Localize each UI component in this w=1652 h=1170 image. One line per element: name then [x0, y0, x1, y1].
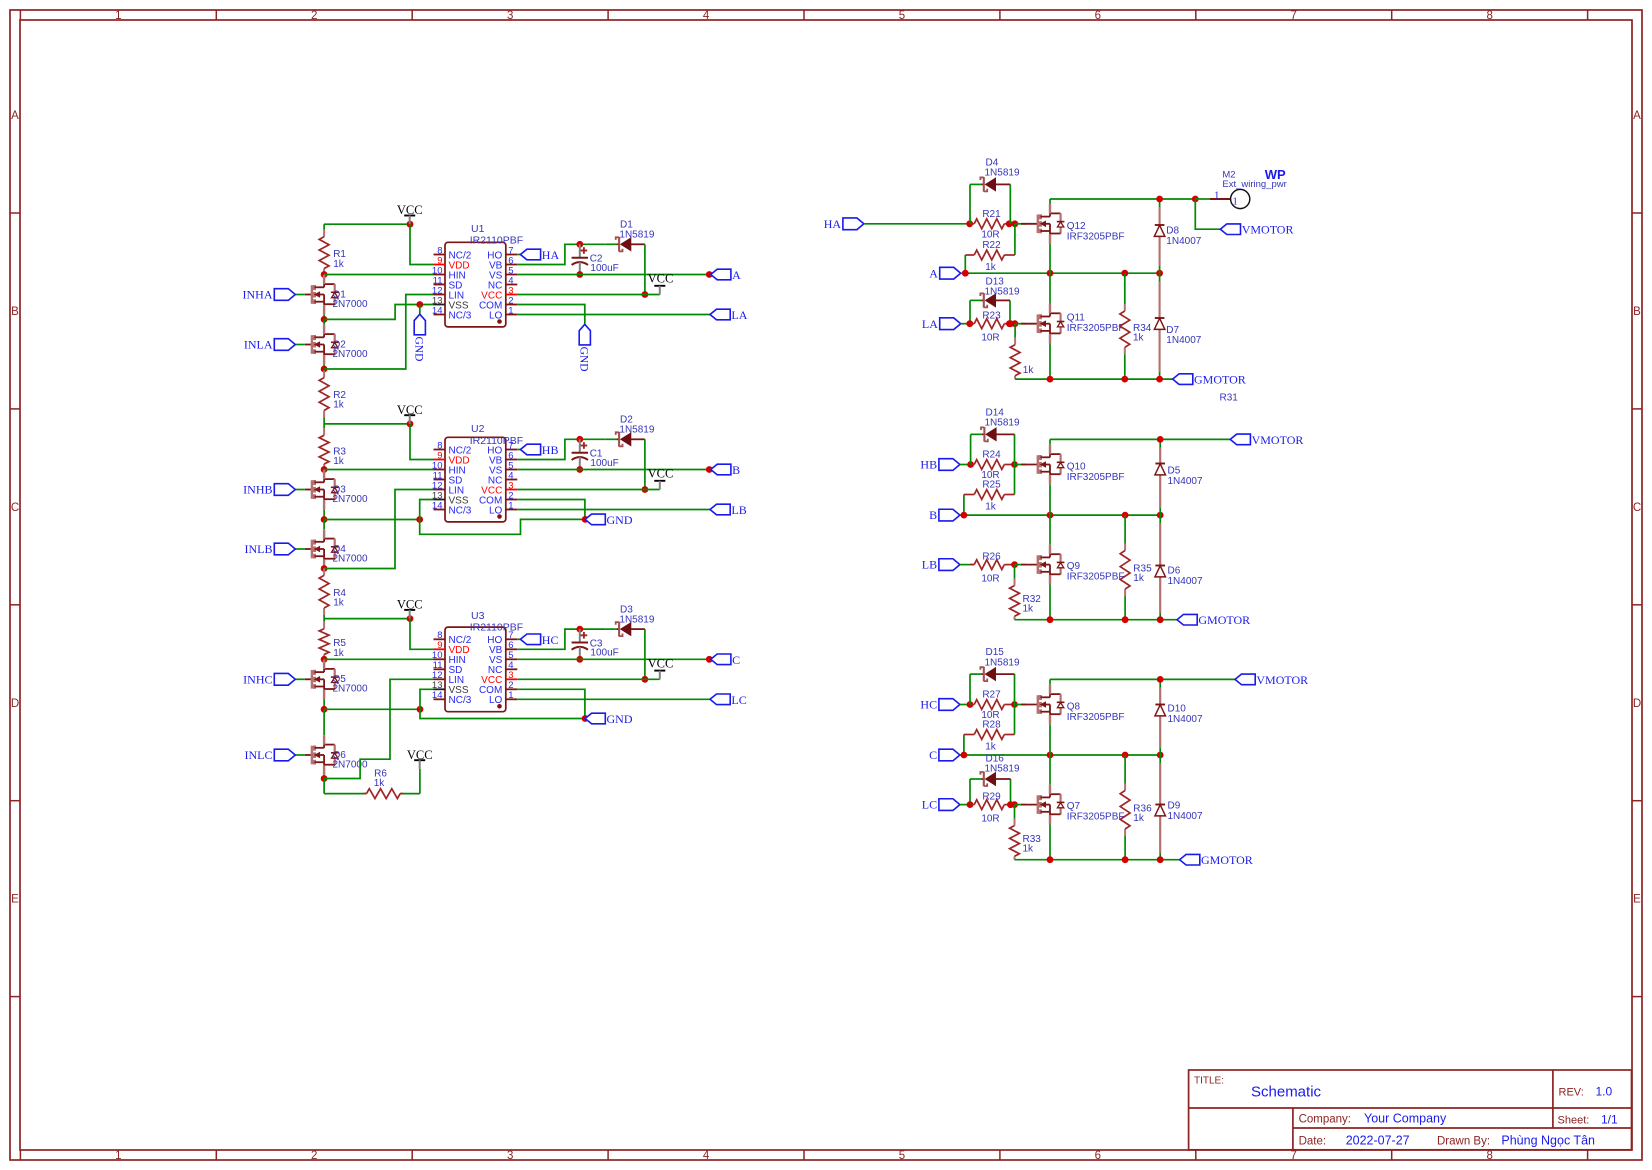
svg-text:10R: 10R — [981, 574, 999, 585]
svg-text:1: 1 — [508, 305, 513, 316]
wire LO to port LC — [517, 698, 710, 700]
svg-text:10R: 10R — [981, 229, 999, 240]
svg-text:GND: GND — [413, 337, 425, 362]
transistor Q10 IRF3205PBF (high side) — [1021, 464, 1038, 466]
resistor R4 1k — [323, 569, 325, 576]
port INHA — [295, 294, 305, 296]
diode D8 1N4007 — [1159, 199, 1161, 273]
U3 right pin 1 (LO) — [506, 698, 518, 700]
wire diode to VCC net — [644, 244, 646, 294]
ground port GND (U2) — [585, 514, 605, 525]
wire VMOTOR rail — [1050, 678, 1235, 680]
junction gmotor/MOSFET — [1047, 616, 1054, 623]
junction phase/R pulldown — [1121, 270, 1128, 277]
port A — [711, 269, 731, 280]
wire HB to gate resistor — [960, 464, 971, 466]
svg-text:1k: 1k — [1133, 573, 1145, 584]
svg-text:1k: 1k — [985, 742, 997, 753]
svg-text:Date:: Date: — [1299, 1136, 1327, 1148]
wire gate to Q9 — [1015, 564, 1026, 566]
junction gate node (low) — [1006, 320, 1013, 327]
U1 right pin 3 (VCC) — [506, 294, 518, 296]
svg-text:TITLE:: TITLE: — [1194, 1076, 1224, 1087]
svg-text:14: 14 — [432, 305, 443, 316]
junction at port C — [706, 656, 713, 663]
port INLB — [295, 548, 305, 550]
resistor R26 10R (gate, low side) — [960, 564, 974, 566]
port INLC — [295, 754, 305, 756]
U1 left pin 10 (HIN) — [434, 274, 446, 276]
junction VCC net — [642, 676, 649, 683]
U1 left pin 13 (VSS) — [434, 304, 446, 306]
junction phase/diode column — [1156, 270, 1163, 277]
svg-text:R24: R24 — [982, 450, 1001, 461]
port B — [711, 464, 731, 475]
wire phase row — [960, 514, 1160, 516]
svg-text:2: 2 — [311, 10, 317, 22]
wire drain Q7 from phase — [1049, 755, 1051, 785]
svg-text:1N5819: 1N5819 — [619, 615, 654, 626]
U1 right pin 4 (NC) — [506, 284, 518, 286]
svg-text:1N5819: 1N5819 — [985, 168, 1020, 179]
U2 left pin 8 (NC/2) — [434, 449, 446, 451]
wire VSS route to Q1 source — [324, 305, 433, 320]
junction VCC U1 — [407, 221, 414, 228]
svg-text:R26: R26 — [982, 552, 1001, 563]
wire HO to port HC — [517, 638, 520, 640]
junction gate node (high) — [1006, 220, 1013, 227]
svg-text:1k: 1k — [1023, 365, 1035, 376]
wire VB to bootstrap rail — [517, 629, 566, 649]
svg-text:1k: 1k — [1023, 604, 1035, 615]
diode D7 1N4007 — [1159, 273, 1161, 379]
svg-text:U1: U1 — [471, 223, 485, 235]
svg-text:HA: HA — [542, 248, 560, 262]
svg-text:1k: 1k — [985, 502, 997, 513]
port INLA — [295, 344, 305, 346]
diode D15 1N5819 (parallel, high side) — [969, 674, 971, 704]
U1 right pin 2 (COM) — [506, 304, 518, 306]
U3 left pin 8 (NC/2) — [434, 638, 446, 640]
svg-text:IRF3205PBF: IRF3205PBF — [1067, 323, 1125, 334]
svg-text:R31: R31 — [1220, 393, 1239, 404]
port VMOTOR — [1230, 434, 1250, 445]
junction VCC net — [642, 486, 649, 493]
port LB (gate drive in, low side) — [939, 559, 960, 571]
svg-text:B: B — [1633, 306, 1641, 318]
svg-text:R21: R21 — [982, 209, 1001, 220]
svg-text:14: 14 — [432, 500, 443, 511]
U3 left pin 14 (NC/3) — [434, 698, 446, 700]
junction gmotor/MOSFET — [1047, 376, 1054, 383]
wire Q5 source — [323, 699, 325, 709]
svg-text:LC: LC — [731, 693, 746, 707]
wire gate to Q8 — [1015, 704, 1026, 706]
svg-text:INLC: INLC — [245, 748, 273, 762]
junction phase/MOSFET — [1047, 512, 1054, 519]
port GMOTOR — [1173, 374, 1193, 385]
wire HIN row — [324, 274, 433, 276]
port LB — [710, 504, 730, 515]
U2 left pin 9 (VDD) — [434, 459, 446, 461]
svg-text:1N4007: 1N4007 — [1168, 811, 1203, 822]
junction Q3 source — [321, 516, 328, 523]
svg-text:HB: HB — [920, 458, 937, 472]
transistor Q8 IRF3205PBF (high side) — [1021, 704, 1038, 706]
svg-text:HC: HC — [542, 633, 559, 647]
wire LO to port LA — [517, 314, 710, 316]
U1 right pin 6 (VB) — [506, 264, 518, 266]
svg-text:100uF: 100uF — [590, 263, 618, 274]
svg-text:GND: GND — [607, 712, 633, 726]
resistor R22 1k (gate-source, high side) — [964, 255, 966, 273]
wire LA to gate resistor — [961, 323, 970, 325]
U3 left pin 9 (VDD) — [434, 648, 446, 650]
port GMOTOR — [1177, 614, 1197, 625]
svg-text:A: A — [732, 268, 741, 282]
wire VCC to VDD pin9 U1 — [410, 224, 434, 264]
U3 left pin 10 (HIN) — [434, 658, 446, 660]
wire diode to VCC net — [644, 439, 646, 489]
junction phase/R R22 — [962, 270, 969, 277]
U3 right pin 5 (VS) — [506, 658, 518, 660]
wire VSS route from Q3 source — [324, 519, 420, 521]
ground port GND (U3) — [585, 713, 605, 724]
svg-text:8: 8 — [1486, 1150, 1492, 1162]
resistor R34 1k (phase to gmotor) — [1124, 273, 1126, 304]
svg-text:1N5819: 1N5819 — [985, 287, 1020, 298]
svg-text:NC/3: NC/3 — [449, 695, 472, 706]
wire HIN row — [324, 469, 433, 471]
transistor Q5 2N7000 (high side input) — [323, 658, 325, 660]
port HB (gate drive in, high side) — [939, 459, 960, 471]
wire HIN row — [324, 658, 433, 660]
svg-text:HC: HC — [920, 698, 937, 712]
svg-text:IR2110PBF: IR2110PBF — [470, 235, 524, 247]
svg-text:1k: 1k — [333, 400, 345, 411]
wire VCC row U2 — [324, 423, 410, 425]
wire LIN route to Q4 source — [324, 490, 433, 569]
svg-text:LA: LA — [731, 308, 747, 322]
svg-text:1N4007: 1N4007 — [1166, 335, 1201, 346]
junction phase/diode column — [1157, 512, 1164, 519]
wire drain Q11 from phase — [1049, 273, 1051, 304]
svg-text:A: A — [11, 110, 19, 122]
svg-text:5: 5 — [899, 10, 905, 22]
wire VCC pin3 row — [517, 294, 660, 296]
junction gmotor/R — [1122, 856, 1129, 863]
port C — [711, 654, 731, 665]
port HA — [520, 249, 540, 260]
junction Q4 source — [321, 565, 328, 572]
wire HA to gate resistor — [864, 223, 970, 225]
svg-text:1: 1 — [1233, 196, 1238, 207]
junction HA node — [966, 220, 973, 227]
svg-text:IRF3205PBF: IRF3205PBF — [1067, 231, 1125, 242]
transistor Q9 IRF3205PBF (low side) — [1021, 564, 1038, 566]
wire source Q9 to gmotor — [1049, 584, 1051, 619]
connector M2 Ext_wiring_pwr pin 1 — [1210, 198, 1230, 200]
junction Q5 source — [321, 706, 328, 713]
svg-text:NC/3: NC/3 — [449, 505, 472, 516]
ground flag GND (U1 COM) — [579, 324, 590, 345]
IC U1 IR2110PBF body — [445, 242, 506, 327]
junction rail/diode — [1156, 196, 1163, 203]
U1 left pin 11 (SD) — [434, 284, 446, 286]
wire VSS route from Q5 source — [324, 708, 420, 710]
port LC (gate drive in, low side) — [939, 799, 960, 811]
junction HIN row — [321, 466, 328, 473]
wire drain Q8 — [1049, 679, 1051, 684]
junction phase/R pulldown — [1122, 752, 1129, 759]
svg-text:INLB: INLB — [245, 542, 273, 556]
svg-text:1.0: 1.0 — [1596, 1085, 1613, 1099]
U1 left pin 9 (VDD) — [434, 264, 446, 266]
U3 right pin 3 (VCC) — [506, 678, 518, 680]
port HC — [520, 634, 540, 645]
resistor R1 (top, 1k) — [323, 224, 325, 230]
junction gmotor/diode — [1157, 616, 1164, 623]
svg-text:6: 6 — [1095, 10, 1101, 22]
junction HIN row — [321, 271, 328, 278]
wire phase row — [960, 754, 1160, 756]
svg-text:C: C — [732, 653, 740, 667]
resistor R33 1k (gate pulldown) — [1014, 805, 1016, 819]
svg-text:Q12: Q12 — [1067, 221, 1086, 232]
junction rail/motor branch — [1192, 196, 1199, 203]
junction phase/MOSFET — [1047, 270, 1054, 277]
junction HIN row — [321, 656, 328, 663]
wire LIN route to Q6 source — [324, 679, 433, 778]
svg-text:1k: 1k — [333, 648, 345, 659]
svg-text:Schematic: Schematic — [1251, 1084, 1322, 1101]
wire LIN route to Q2 source — [324, 295, 433, 370]
resistor R36 1k (phase to gmotor) — [1124, 755, 1126, 784]
wire VCC pin3 row — [517, 678, 660, 680]
svg-text:1N5819: 1N5819 — [985, 764, 1020, 775]
U2 left pin 11 (SD) — [434, 479, 446, 481]
port VMOTOR — [1220, 224, 1240, 235]
resistor R5 (top, 1k) — [323, 619, 325, 622]
junction phase/R pulldown — [1122, 512, 1129, 519]
junction gate node (high) — [1011, 461, 1018, 468]
wire source Q7 to gmotor — [1049, 824, 1051, 859]
svg-text:1N5819: 1N5819 — [619, 425, 654, 436]
transistor Q7 IRF3205PBF (low side) — [1021, 804, 1038, 806]
junction capacitor top — [576, 626, 583, 633]
svg-text:4: 4 — [703, 10, 710, 22]
U1 left pin 14 (NC/3) — [434, 314, 446, 316]
svg-text:VMOTOR: VMOTOR — [1242, 223, 1294, 237]
wire VS to port C — [517, 658, 710, 660]
wire VB to bootstrap rail — [517, 244, 566, 264]
svg-text:INHC: INHC — [243, 672, 272, 686]
svg-text:IRF3205PBF: IRF3205PBF — [1067, 811, 1125, 822]
svg-text:R22: R22 — [982, 240, 1001, 251]
svg-text:1k: 1k — [333, 456, 345, 467]
svg-text:3: 3 — [507, 1150, 513, 1162]
svg-text:B: B — [11, 306, 19, 318]
wire LB to gate resistor — [959, 564, 961, 566]
resistor R32 1k (gate pulldown) — [1014, 565, 1016, 579]
port HC (gate drive in, high side) — [939, 699, 960, 711]
wire HO to port HB — [517, 449, 520, 451]
U2 right pin 2 (COM) — [506, 499, 518, 501]
svg-text:A: A — [1633, 110, 1641, 122]
transistor Q1 2N7000 (high side input) — [323, 274, 325, 276]
capacitor C1 100uF — [579, 439, 581, 452]
svg-text:1k: 1k — [333, 598, 345, 609]
svg-text:1N4007: 1N4007 — [1168, 576, 1203, 587]
port LC — [710, 694, 730, 705]
svg-text:Drawn By:: Drawn By: — [1437, 1136, 1490, 1148]
resistor R2 1k — [323, 369, 325, 371]
junction at port A — [706, 271, 713, 278]
svg-text:INHA: INHA — [243, 288, 273, 302]
svg-text:6: 6 — [1095, 1150, 1101, 1162]
svg-text:Q10: Q10 — [1067, 462, 1086, 473]
wire GMOTOR rail — [1015, 378, 1173, 380]
title block — [1189, 1070, 1632, 1150]
wire to motor connector — [1195, 198, 1209, 200]
wire ground route under chip — [420, 709, 585, 718]
svg-text:Q8: Q8 — [1067, 702, 1081, 713]
junction Q6 source — [321, 775, 328, 782]
svg-text:2N7000: 2N7000 — [333, 553, 368, 564]
svg-text:LC: LC — [922, 798, 937, 812]
junction LC node — [967, 801, 974, 808]
svg-text:INHB: INHB — [243, 483, 272, 497]
port HB — [520, 444, 540, 455]
svg-text:1N4007: 1N4007 — [1168, 476, 1203, 487]
U3 left pin 13 (VSS) — [434, 688, 446, 690]
junction Q1 source — [321, 316, 328, 323]
U2 right pin 7 (HO) — [506, 449, 518, 451]
wire to VMOTOR port — [1195, 199, 1220, 229]
svg-text:VCC: VCC — [648, 467, 674, 481]
svg-text:GMOTOR: GMOTOR — [1201, 853, 1253, 867]
wire HO to port HA — [517, 254, 520, 256]
svg-text:LA: LA — [922, 317, 938, 331]
svg-text:2022-07-27: 2022-07-27 — [1346, 1134, 1410, 1148]
junction GND port — [582, 516, 589, 523]
wire HC to gate resistor — [960, 704, 970, 706]
resistor R6 1k — [324, 793, 366, 795]
resistor R35 1k (phase to gmotor) — [1124, 515, 1126, 543]
svg-text:A: A — [929, 266, 938, 280]
svg-text:GND: GND — [607, 513, 633, 527]
svg-text:VMOTOR: VMOTOR — [1252, 433, 1304, 447]
svg-text:2N7000: 2N7000 — [333, 494, 368, 505]
wire VCC to VDD pin9 U3 — [410, 619, 434, 650]
svg-text:VCC: VCC — [648, 657, 674, 671]
junction LA node — [966, 320, 973, 327]
wire gate to Q11 — [1016, 323, 1026, 325]
svg-text:100uF: 100uF — [590, 648, 618, 659]
wire GMOTOR rail — [1015, 859, 1180, 861]
diode D5 1N4007 — [1159, 439, 1161, 515]
svg-text:R23: R23 — [982, 311, 1001, 322]
junction gate node (low) — [1011, 561, 1018, 568]
svg-text:1N4007: 1N4007 — [1166, 236, 1201, 247]
wire drain Q9 from phase — [1049, 515, 1051, 545]
wire LC to gate resistor — [960, 804, 970, 806]
transistor Q12 IRF3205PBF (high side) — [1021, 223, 1038, 225]
U3 right pin 6 (VB) — [506, 648, 518, 650]
svg-text:Q9: Q9 — [1067, 561, 1081, 572]
diode D16 1N5819 (parallel, low side) — [969, 779, 971, 805]
junction phase/R R28 — [961, 752, 968, 759]
svg-text:GND: GND — [578, 347, 590, 372]
junction gate node (high) — [1011, 701, 1018, 708]
diode D14 1N5819 (parallel, high side) — [970, 434, 972, 464]
resistor R21 10R (gate, high side) — [970, 223, 975, 225]
wire VCC row U1 — [324, 223, 410, 225]
wire drain Q10 — [1049, 439, 1051, 444]
wire source Q8 to phase — [1049, 724, 1051, 755]
junction HB node — [967, 461, 974, 468]
junction VSS route — [416, 516, 423, 523]
wire VS to port A — [517, 274, 710, 276]
diode D13 1N5819 (parallel, low side) — [969, 300, 971, 323]
wire COM to ground port — [517, 500, 585, 520]
svg-text:HA: HA — [824, 217, 842, 231]
resistor R24 10R (gate, high side) — [971, 464, 975, 466]
svg-text:E: E — [11, 894, 19, 906]
svg-text:7: 7 — [1291, 1150, 1297, 1162]
port GMOTOR — [1180, 854, 1200, 865]
U2 right pin 6 (VB) — [506, 459, 518, 461]
svg-text:1: 1 — [115, 10, 121, 22]
svg-text:C: C — [929, 748, 937, 762]
svg-text:2N7000: 2N7000 — [333, 349, 368, 360]
svg-text:8: 8 — [1486, 10, 1492, 22]
U1 right pin 7 (HO) — [506, 254, 518, 256]
U3 right pin 4 (NC) — [506, 668, 518, 670]
transistor Q6 2N7000 (low side input) — [323, 709, 325, 735]
svg-text:LB: LB — [922, 558, 937, 572]
U1 left pin 8 (NC/2) — [434, 254, 446, 256]
wire VCC row U3 — [324, 618, 410, 620]
svg-text:100uF: 100uF — [590, 458, 618, 469]
svg-text:Your Company: Your Company — [1364, 1112, 1447, 1126]
junction capacitor bottom — [576, 271, 583, 278]
wire ground route under chip — [420, 519, 585, 534]
svg-text:C: C — [11, 502, 19, 514]
svg-text:14: 14 — [432, 690, 443, 701]
svg-text:2N7000: 2N7000 — [333, 684, 368, 695]
svg-text:B: B — [929, 508, 937, 522]
wire gate to Q12 — [1015, 223, 1026, 225]
svg-text:10R: 10R — [981, 333, 999, 344]
U2 right pin 4 (NC) — [506, 479, 518, 481]
wire bootstrap rail — [565, 628, 605, 630]
port LA — [710, 309, 730, 320]
svg-text:GMOTOR: GMOTOR — [1198, 613, 1250, 627]
svg-text:IRF3205PBF: IRF3205PBF — [1067, 472, 1125, 483]
resistor R29 10R (gate, low side) — [970, 804, 974, 806]
svg-text:Phùng Ngọc Tân: Phùng Ngọc Tân — [1501, 1134, 1595, 1148]
svg-text:B: B — [732, 463, 740, 477]
svg-text:R27: R27 — [982, 690, 1001, 701]
svg-text:1k: 1k — [1023, 844, 1035, 855]
port B (phase node) — [939, 509, 960, 521]
U3 right pin 7 (HO) — [506, 638, 518, 640]
wire bootstrap rail — [565, 243, 605, 245]
port C (phase node) — [939, 749, 960, 761]
U3 left pin 12 (LIN) — [434, 678, 446, 680]
svg-text:NC/3: NC/3 — [449, 310, 472, 321]
